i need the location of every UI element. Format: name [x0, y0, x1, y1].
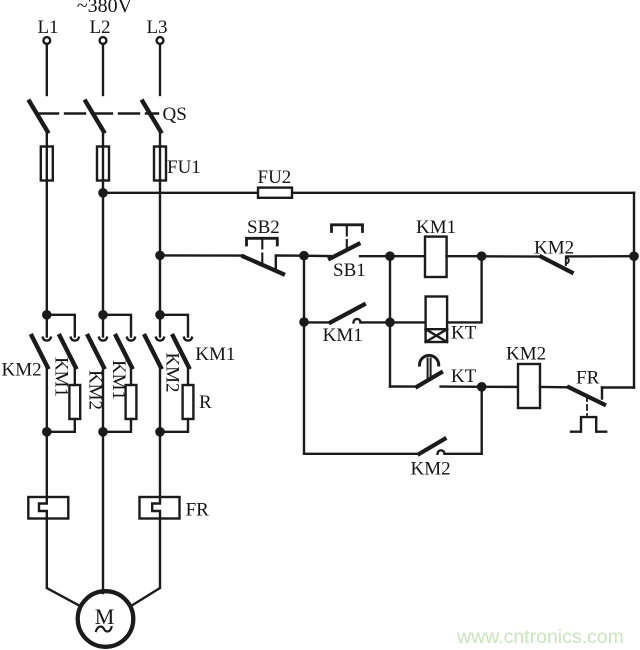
node P3 top — [156, 311, 163, 318]
svg-text:KT: KT — [451, 323, 477, 344]
wire L2 down to branch — [102, 181, 104, 315]
wire KM2 NC to right rail — [567, 255, 635, 258]
contact FR blade — [569, 387, 604, 404]
wire FR to right rail — [602, 386, 634, 388]
wire P3 left upper — [159, 315, 161, 337]
wire KM1 coil to node C — [447, 255, 482, 257]
svg-text:L1: L1 — [37, 17, 58, 38]
wire P2 branch mid — [130, 367, 132, 385]
pushbutton SB1 cap — [332, 225, 363, 232]
wire node C to KM2 NC — [482, 255, 542, 258]
pushbutton SB2 fixed tick — [275, 256, 277, 270]
wire P3 to motor — [131, 519, 160, 607]
contact KM1 main P3 arc — [184, 338, 192, 341]
node A2 — [300, 318, 307, 325]
heater FR phase3 element — [152, 497, 160, 519]
node A — [300, 252, 307, 259]
contact KM1 main P2 arc — [127, 338, 135, 341]
wire node D down — [481, 387, 483, 454]
node P2 bottom — [99, 428, 106, 435]
wire P1 left upper — [46, 315, 48, 337]
wire row3 left — [390, 385, 417, 388]
wire P2 branch top — [103, 315, 131, 337]
wire P2 to motor — [102, 432, 104, 593]
svg-text:KT: KT — [451, 366, 477, 387]
wire P1 left lower — [46, 367, 48, 432]
contact KM1 main P1 arc — [71, 338, 79, 341]
contact KT delayed blade — [417, 373, 441, 387]
switch QS pole 1 blade — [30, 102, 48, 132]
wire QS2 to FU1 — [102, 132, 104, 147]
wire node B to KM1 coil — [390, 255, 425, 257]
svg-text:www.cntronics.com: www.cntronics.com — [456, 626, 624, 648]
svg-text:L2: L2 — [89, 17, 110, 38]
fuse FU1 pole 1 — [41, 147, 53, 181]
resistor R P2 — [126, 385, 137, 419]
node P2 top — [99, 311, 106, 318]
terminal L1 — [43, 37, 50, 44]
wire P3 left lower — [159, 367, 161, 432]
wire P3 branch bottom — [160, 419, 188, 432]
node L3 control tap — [156, 252, 163, 259]
coil KT — [426, 297, 448, 343]
contact KM2 main P2 arc — [99, 338, 107, 341]
node B2 — [386, 319, 393, 326]
wire row2 left — [304, 321, 331, 323]
switch QS pole 3 blade — [143, 102, 161, 132]
node L2-FU2 junction — [99, 189, 106, 196]
wire QS1 to FU1 — [46, 132, 48, 147]
wire KM1 NO to node B2 — [361, 321, 391, 323]
contact KT delay symbol — [420, 355, 439, 365]
svg-text:FR: FR — [576, 368, 600, 389]
contact KM2 NO bottom blade — [419, 439, 444, 454]
node P1 bottom — [43, 428, 50, 435]
label motor tilde — [96, 627, 112, 632]
wire KT contact to node D — [441, 385, 482, 388]
terminal L3 — [157, 37, 164, 44]
contact KM2 main P3 arc — [156, 338, 164, 341]
contact KM1 main P2 blade — [116, 336, 132, 367]
svg-text:L3: L3 — [146, 17, 167, 38]
contact KM1 NO blade — [331, 305, 364, 323]
svg-text:KM2: KM2 — [2, 360, 42, 381]
wire L3 drop — [159, 44, 161, 95]
wire P3 branch mid — [187, 367, 189, 385]
svg-text:FR: FR — [186, 500, 210, 521]
motor M circle — [78, 591, 134, 647]
coil KM2 — [518, 364, 540, 408]
wire right rail — [633, 193, 635, 388]
wire mid vertical B-B2-row3 — [389, 256, 391, 386]
terminal L2 — [100, 37, 107, 44]
svg-text:KM1: KM1 — [323, 325, 363, 346]
coil KM1 — [425, 237, 447, 277]
contact FR fixed tick — [601, 388, 603, 399]
resistor R P3 — [183, 385, 194, 419]
wire SB2 to node A — [276, 254, 304, 257]
fuse FU1 pole 2 — [97, 147, 109, 181]
svg-text:KM1: KM1 — [416, 217, 456, 238]
wire SB1 to node B — [360, 255, 390, 257]
wire P1 branch mid — [74, 367, 76, 385]
wire L2 drop — [102, 44, 104, 95]
contact KM1 main P1 blade — [60, 336, 76, 367]
wire L1 down to branch — [46, 181, 48, 315]
wire P2 branch bottom — [103, 419, 131, 432]
pushbutton SB2 cap — [247, 238, 278, 245]
svg-text:SB2: SB2 — [247, 217, 280, 238]
contact KM2 NC hook — [566, 257, 569, 265]
svg-text:~380V: ~380V — [77, 0, 133, 17]
svg-text:M: M — [95, 604, 115, 629]
svg-text:KM2: KM2 — [85, 370, 106, 410]
contact KM1 NO pivot arc — [354, 319, 361, 322]
svg-text:KM1: KM1 — [51, 357, 72, 397]
wire node A to SB1 — [304, 254, 331, 257]
wire KM2 coil to FR — [540, 386, 569, 389]
contact KM2 NC blade — [541, 257, 572, 273]
pushbutton SB2 blade — [243, 257, 283, 275]
wire FU2 feeder — [103, 192, 634, 194]
wire P1 to motor — [47, 519, 80, 607]
heater FR phase3 box — [140, 497, 180, 519]
wire row1 left — [160, 254, 243, 257]
svg-text:R: R — [199, 392, 212, 413]
node B — [386, 253, 393, 260]
wire P3 branch top — [160, 315, 188, 337]
svg-text:KM2: KM2 — [506, 344, 546, 365]
wire P1 branch top — [47, 315, 75, 337]
wire KM2 NO bottom to node D — [445, 453, 482, 455]
contact KM2 NO bottom pivot arc — [438, 450, 445, 453]
svg-text:QS: QS — [163, 104, 187, 125]
FR trip symbol — [571, 417, 606, 432]
wire left rail — [304, 256, 419, 454]
wire node D to KM2 coil — [482, 386, 518, 389]
node C — [478, 253, 485, 260]
contact KM2 main P1 arc — [43, 338, 51, 341]
fuse FU2 — [258, 188, 292, 198]
wire L1 drop — [46, 44, 48, 95]
node D — [478, 383, 485, 390]
wire P1 to heater — [46, 432, 48, 497]
contact KM2 main P2 blade — [88, 336, 104, 367]
pushbutton SB1 blade — [330, 244, 359, 259]
fuse FU1 pole 3 — [154, 147, 166, 181]
wire row2 to KT coil — [390, 321, 426, 323]
node P3 bottom — [156, 428, 163, 435]
wire P2 left lower — [102, 367, 104, 432]
svg-text:KM2: KM2 — [162, 352, 183, 392]
node P1 top — [43, 311, 50, 318]
heater FR phase1 element — [39, 497, 47, 519]
heater FR phase1 box — [28, 497, 68, 519]
contact KM2 main P1 blade — [32, 336, 48, 367]
node right rail — [630, 253, 637, 260]
wire QS3 to FU1 — [159, 132, 161, 147]
switch QS pole 2 blade — [86, 102, 104, 132]
wire L3 down to branch — [159, 181, 161, 315]
svg-text:KM2: KM2 — [411, 459, 451, 480]
svg-text:FU2: FU2 — [258, 167, 292, 188]
wire P2 left upper — [102, 315, 104, 337]
svg-text:KM1: KM1 — [108, 360, 129, 400]
resistor R P1 — [69, 385, 80, 419]
svg-text:FU1: FU1 — [167, 157, 201, 178]
contact KM1 main P3 blade — [173, 336, 189, 367]
svg-text:KM1: KM1 — [195, 344, 235, 365]
svg-text:SB1: SB1 — [333, 260, 366, 281]
contact KM2 main P3 blade — [145, 336, 161, 367]
wire P3 to heater — [159, 432, 161, 497]
QS linkage dashed — [38, 112, 158, 114]
wire KT coil to node C — [447, 256, 482, 322]
wire P1 branch bottom — [47, 419, 75, 432]
